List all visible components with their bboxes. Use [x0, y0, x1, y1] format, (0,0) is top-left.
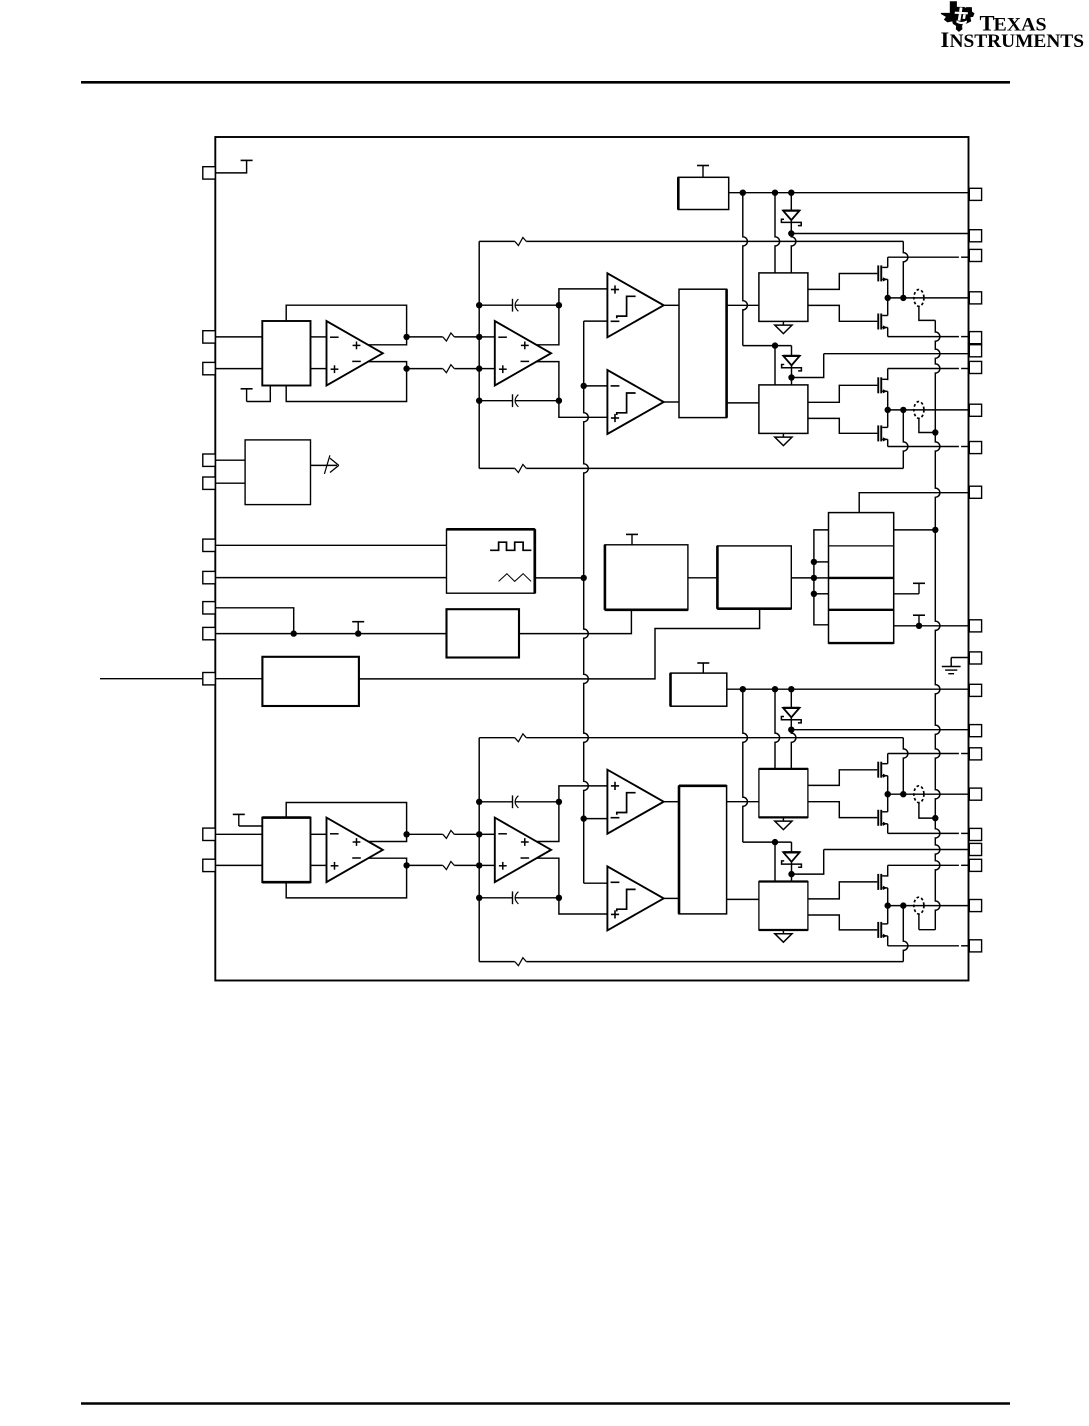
wire gvdd2 branch to zener4 — [743, 841, 792, 843]
pin BSTN1 — [969, 345, 981, 357]
comparator U15 (ch2 upper PWM comp) — [607, 770, 663, 834]
wire gvdd to zener1 — [790, 193, 792, 211]
pin IN1- left — [203, 362, 216, 374]
wire A1 out lower — [368, 362, 407, 369]
node dot stack tap a — [811, 559, 817, 565]
wire OUT2 to bead — [888, 409, 970, 411]
ground symbol (driver U5) — [775, 321, 792, 333]
resistor break R1 (outP) — [443, 333, 455, 341]
pin SE/BTL — [203, 477, 216, 489]
comparator U2 (ch1 upper PWM comp) — [607, 273, 663, 337]
node dot cap bot-left — [476, 398, 482, 404]
transistor Q7 (high-side N2) — [877, 874, 887, 890]
node dot cap top-right — [556, 302, 562, 308]
wire U17 to driver3 — [727, 801, 759, 803]
node dot int2 inP — [476, 831, 482, 837]
pin REF — [203, 602, 216, 614]
pin OUTP2 — [969, 788, 981, 800]
gain block U14 (ch2 input gain) — [262, 818, 310, 883]
wire U18 low gate — [808, 802, 877, 818]
wire gvdd2 drop to bstn branch — [743, 689, 748, 842]
wire gvdd branch to zener2 — [743, 345, 792, 347]
wire drop to driver2 a — [774, 346, 776, 385]
resistor break R6 (outN) — [443, 862, 455, 870]
transistor Q5 (high-side P2) — [877, 762, 887, 778]
zener diode D2 (bstn1) — [782, 356, 802, 379]
pin PGND1 — [969, 332, 981, 344]
wire feedback rail1 drop — [903, 241, 908, 298]
comparator U3 (ch1 lower PWM comp) — [607, 370, 663, 434]
pin VREG (row4 out) — [969, 620, 981, 632]
wire Q2 source to PGND1 — [888, 328, 970, 337]
ramp gen block U9 — [605, 545, 688, 610]
wire bead to OUTN2 pin — [0, 0, 1, 1]
wire PVDD1b rail — [888, 369, 970, 381]
node dot OUT1 b — [900, 295, 906, 301]
pin BSTP2 — [969, 725, 981, 737]
node dot OUT1 a — [885, 295, 891, 301]
bead FB3 (out3 dashed ellipse) — [914, 786, 924, 803]
diagram border — [215, 137, 968, 981]
wire shutdown to pullup — [215, 160, 246, 173]
node dot int2 inN — [476, 862, 482, 868]
pin GVDD2 (right) — [969, 684, 981, 696]
node dot OUT4 b — [900, 902, 906, 908]
node dot v2p5 T tap — [355, 630, 361, 636]
pin PVDD2b — [969, 859, 981, 871]
bead FB4 (out4 dashed ellipse) — [914, 897, 924, 914]
ground symbol (driver U18) — [775, 817, 792, 829]
wire Q2 drain to OUT1 — [887, 298, 889, 316]
bead FB2 (out2 dashed ellipse) — [914, 402, 924, 419]
node dot zener4 top — [772, 839, 778, 845]
wire ramp to U3 minus — [584, 385, 608, 387]
transistor Q4 (low-side N1) — [877, 425, 887, 441]
pullup T symbol (shutdown) — [241, 159, 253, 161]
node dot gvdd2 b — [772, 686, 778, 692]
wire stack tap mid — [814, 577, 829, 579]
gate driver block U6 (ch1 low bridge) — [759, 385, 808, 434]
wire Q8 drain to OUT4 — [887, 906, 889, 924]
bias T symbol (row3) — [913, 583, 925, 594]
wire gvdd2 to zener3 — [790, 689, 792, 707]
node A3 outN dot — [403, 862, 409, 868]
wire A1 outP to integrator — [407, 336, 443, 338]
wire BSTP1 rail — [791, 233, 969, 235]
wire feedback rail2 ch2 — [479, 961, 903, 963]
pin PVDD1 — [969, 249, 981, 261]
pin BSTP1 — [969, 230, 981, 242]
wire rosc to oscillator — [215, 544, 446, 546]
node dot cap2 top-left — [476, 799, 482, 805]
wire gvdd drop to driver1 — [775, 193, 780, 273]
wire PVDD2b rail — [888, 865, 970, 876]
wire R6 to node — [454, 864, 479, 866]
wire Q4 drain to OUT2 — [887, 410, 889, 428]
wire A2 out lower to comp2 — [536, 362, 607, 418]
node dot ramp osc — [581, 575, 587, 581]
wire IN1+ to gain block — [215, 336, 262, 338]
wire Q4 source to PGND1b — [888, 439, 970, 446]
wire mute external lead — [100, 678, 203, 680]
node dot cap2 bot-right — [556, 895, 562, 901]
wire U10 out to stack — [791, 577, 814, 579]
wire A1 outN to integrator — [407, 368, 443, 370]
wire feedback rail2 rise — [903, 410, 908, 469]
capacitor C2 (ch1 lower integrator cap) — [479, 394, 559, 407]
wire IN2- to gain block — [215, 864, 262, 866]
wire OUT4 to bead — [888, 905, 970, 907]
wire A3 feedback top — [286, 803, 406, 835]
wire A4 inN — [479, 864, 495, 866]
wire U8 out to U9 — [519, 610, 631, 634]
logo text TEXAS INSTRUMENTS — [941, 10, 1085, 52]
wire Q1 source to OUT1 — [887, 279, 889, 298]
wire A3 inP — [311, 833, 327, 835]
wire R1 to node — [454, 336, 479, 338]
bias T symbol (ch1 gain block) — [241, 389, 253, 402]
wire Q5 source to OUT3 — [887, 776, 889, 795]
wire drop to driver4 a — [774, 842, 776, 881]
bead FB1 (out1 dashed ellipse) — [914, 290, 924, 307]
bias T symbol (ch2 gain block) — [233, 814, 262, 826]
gate logic block U4 (ch1) — [679, 289, 727, 417]
node dot ref join — [291, 630, 297, 636]
pin BSTN2 — [969, 843, 981, 855]
wire U6 high gate — [808, 385, 877, 402]
bias block U10 — [717, 546, 791, 609]
wire stack row3 out — [894, 593, 919, 595]
wire drop to driver2 b — [791, 378, 793, 385]
wire U18 high gate — [808, 770, 877, 786]
SC detect block U8 — [447, 609, 520, 657]
wire GVDD rail ch2 — [727, 688, 970, 690]
ground symbol (driver U6) — [775, 433, 792, 445]
zener diode D4 (bstn2) — [782, 852, 802, 875]
square wave glyph — [490, 542, 531, 550]
wire Q6 drain to OUT3 — [887, 794, 889, 812]
node dot cap bot-right — [556, 398, 562, 404]
wire ramp to U15 minus — [584, 818, 608, 820]
wire Q8 source to PGND2b — [888, 936, 970, 946]
wire U12 out to U10 bottom — [359, 609, 760, 679]
wire feedback rail1 drop ch2 — [903, 738, 908, 795]
wire stack row1 out to vclamp rail — [894, 529, 936, 531]
wire feedback rail1 ch2 — [479, 737, 903, 739]
wire U15 out — [664, 801, 679, 803]
mute block U12 — [262, 657, 359, 706]
resistor break R7 (fb rail1 ch2) — [515, 734, 527, 742]
node dot OUT2 b — [900, 407, 906, 413]
wire v2p5 rail to SC block — [215, 633, 446, 635]
op-amp A3 (ch2 input diff amp) — [327, 818, 383, 883]
wire volume pin to block — [215, 459, 245, 461]
wire mute pin to mute block — [215, 678, 262, 680]
transistor Q2 (low-side P1) — [877, 314, 887, 330]
wire feedback rail1 ch1 — [479, 240, 903, 242]
oscillator block U7 — [447, 529, 535, 593]
op-amp A1 (ch1 input diff amp) — [327, 321, 383, 386]
wire integrator input bus vertical ch2 — [478, 738, 480, 962]
pin PVDD? IN1+ left — [203, 331, 216, 343]
wire U5 low gate — [808, 305, 877, 321]
wire IN2+ to gain block — [215, 833, 262, 835]
analog ground symbol AGND — [942, 658, 970, 674]
wire drop to driver4 b — [791, 874, 793, 881]
capacitor C1 (ch1 upper integrator cap) — [479, 299, 559, 312]
wire ramp bus vertical — [584, 321, 589, 883]
triangle wave glyph — [499, 574, 531, 582]
wire A4 out upper to comp3 — [536, 786, 607, 842]
node dot gvdd a — [740, 190, 746, 196]
node dot ramp tap U15 — [581, 815, 587, 821]
pin PGND2 — [969, 828, 981, 840]
wire A2 out upper to comp1 — [536, 289, 607, 345]
gate driver block U19 (ch2 low bridge) — [759, 882, 808, 931]
wire feedback rail2 ch1 — [479, 467, 903, 469]
wire U17 to driver4 — [727, 898, 759, 900]
wire IN1- to gain block — [215, 368, 262, 370]
bottom horizontal rule — [81, 1402, 1010, 1405]
wire zener3 down to driver3 — [791, 730, 796, 769]
wire bead1 tap to vclamp rail — [919, 306, 935, 320]
wire osc out to ramp bus — [535, 577, 584, 579]
wire Q3 source to OUT2 — [887, 391, 889, 410]
node dot OUT2 a — [885, 407, 891, 413]
wire bead3 tap to vclamp rail — [919, 803, 935, 819]
wire A4 out lower to comp4 — [536, 858, 607, 914]
pin OUTP1 — [969, 292, 981, 304]
node dot int inP — [476, 334, 482, 340]
wire bead to OUTN1 pin — [0, 0, 1, 1]
comparator U16 (ch2 lower PWM comp) — [607, 866, 663, 930]
pin OUTN1 — [969, 404, 981, 416]
bus arrow head — [330, 458, 339, 472]
pin PGND2b — [969, 940, 981, 952]
wire R5 to node — [454, 833, 479, 835]
node dot bstn2 — [788, 871, 794, 877]
block GVDD reg (ch1) — [678, 177, 728, 209]
resistor break R5 (outP) — [443, 830, 455, 838]
transistor Q6 (low-side P2) — [877, 810, 887, 826]
node dot bstn1 — [788, 374, 794, 380]
pin PGND1b — [969, 442, 981, 454]
node dot row4 T tap — [916, 623, 922, 629]
transistor Q3 (high-side N1) — [877, 377, 887, 393]
op-amp A4 (ch2 integrator) — [495, 818, 551, 883]
node dot stack in — [811, 575, 817, 581]
resistor break R4 (fb rail2) — [515, 465, 527, 473]
wire A1 inN — [311, 368, 327, 370]
pin PVDD2 — [969, 748, 981, 760]
wire stack tap a — [814, 561, 829, 563]
node dot stack tap c — [811, 591, 817, 597]
wire stack tap c — [814, 593, 829, 595]
pin MUTE — [203, 673, 216, 685]
capacitor C3 (ch2 upper integrator cap) — [479, 795, 559, 808]
bias T symbol (gvdd2) — [697, 663, 709, 673]
node dot OUT3 b — [900, 791, 906, 797]
pin COSC — [203, 571, 216, 583]
wire GVDD rail ch1 — [729, 192, 970, 194]
wire integrator input bus vertical ch1 — [478, 241, 480, 468]
pin IN2+ left — [203, 828, 216, 840]
gate driver block U18 (ch2 high bridge) — [759, 769, 808, 818]
wire A3 out lower — [368, 858, 407, 865]
wire BSTN2 rail — [792, 850, 970, 875]
wire gvdd2 drop to driver3 — [775, 689, 780, 769]
bias T symbol (row4) — [913, 615, 925, 626]
resistor break R2 (outN) — [443, 365, 455, 373]
node dot gvdd c — [788, 190, 794, 196]
pin ROSC — [203, 539, 216, 551]
wire zener4 stub — [791, 842, 793, 852]
gain block U1 (ch1 input gain) — [262, 321, 310, 386]
logo TI bug (Texas outline with ti) — [941, 1, 975, 32]
wire BSTP2 rail — [791, 729, 969, 731]
pin V2P5 — [203, 627, 216, 639]
wire gvdd drop to bstn branch — [743, 193, 748, 346]
wire stack row1 top to VCLAMP pin — [859, 493, 969, 513]
wire A3 feedback bottom — [286, 865, 406, 898]
node A1 outN dot — [403, 365, 409, 371]
node dot vclamp row1 — [932, 527, 938, 533]
wire A2 inN — [479, 368, 495, 370]
wire U3 out — [664, 401, 679, 403]
wire U4 to driver1 — [727, 304, 759, 306]
node A3 outP dot — [403, 831, 409, 837]
node dot bst2 — [788, 727, 794, 733]
wire ramp to U2 minus — [584, 320, 608, 322]
wire bead to OUTP1 pin — [0, 0, 1, 1]
wire feedback rail2 rise ch2 — [903, 906, 908, 962]
wire stack tap bus — [814, 530, 829, 625]
resistor break R8 (fb rail2 ch2) — [515, 958, 527, 966]
node dot gvdd b — [772, 190, 778, 196]
wire R2 to node — [454, 368, 479, 370]
gate driver block U5 (ch1 high bridge) — [759, 273, 808, 322]
wire cosc to oscillator — [215, 577, 446, 579]
wire A3 inN — [311, 864, 327, 866]
node A1 outP dot — [403, 334, 409, 340]
wire vclamp rail vertical — [919, 320, 940, 929]
bias T symbol (gvdd1) — [697, 166, 709, 178]
top horizontal rule — [81, 81, 1010, 84]
op-amp A2 (ch1 integrator) — [495, 321, 551, 386]
wire U6 low gate — [808, 418, 877, 433]
pin VCLAMP — [969, 486, 981, 498]
wire A2 inP — [479, 336, 495, 338]
wire U19 low gate — [808, 915, 877, 930]
wire ref pin jog down — [215, 608, 293, 634]
wire A3 outN to integrator — [407, 864, 443, 866]
wire U13 bus out — [311, 464, 338, 466]
node dot OUT4 a — [885, 902, 891, 908]
pullup T symbol (v2p5 rail) — [352, 622, 364, 634]
ground symbol (driver U19) — [775, 930, 792, 942]
wire A3 outP to integrator — [407, 833, 443, 835]
zener diode D1 (bst1) — [781, 211, 801, 234]
regulator stack block U11 (4 rows) — [829, 513, 894, 644]
wire U19 high gate — [808, 882, 877, 899]
wire A4 inP — [479, 833, 495, 835]
node dot OUT3 a — [885, 791, 891, 797]
wire BSTN1 rail — [792, 354, 970, 378]
node dot cap2 bot-left — [476, 895, 482, 901]
wire U9 to U10 — [688, 577, 718, 579]
node dot bst1 — [788, 230, 794, 236]
pin SHUTDOWN (top-left) — [203, 167, 216, 179]
wire Q6 source to PGND2 — [888, 824, 970, 834]
node dot gvdd2 c — [788, 686, 794, 692]
node dot cap2 top-right — [556, 799, 562, 805]
volume block U13 — [245, 440, 310, 505]
node dot int inN — [476, 365, 482, 371]
pin GVDD (right) — [969, 188, 981, 200]
zener diode D3 (bst2) — [781, 708, 801, 731]
wire bead4 tap to vclamp rail — [918, 914, 920, 930]
pin OUTN2 — [969, 900, 981, 912]
wire A3 out upper — [368, 834, 407, 841]
bus slash — [324, 455, 330, 474]
gate logic block U17 (ch2) — [679, 786, 727, 914]
node dot vclamp tap3 — [932, 815, 938, 821]
wire A1 inP — [311, 336, 327, 338]
pin AGND — [969, 652, 981, 664]
wire bead to OUTP2 pin — [0, 0, 1, 1]
wire stack row4 out to VREG pin — [894, 625, 970, 627]
wire U5 high gate — [808, 274, 877, 290]
wire A1 out upper — [368, 337, 407, 345]
wire bias T to block — [247, 386, 271, 402]
resistor break R3 (fb rail1) — [515, 238, 527, 246]
transistor Q8 (low-side N2) — [877, 922, 887, 938]
block GVDD reg (ch2) — [671, 673, 727, 706]
wire ramp to comp4 minus — [584, 882, 608, 884]
wire OUT1 to bead — [888, 297, 970, 299]
node dot vclamp tap2 — [932, 429, 938, 435]
svg-text:I: I — [941, 27, 950, 52]
wire U16 out — [664, 897, 679, 899]
node dot cap top-left — [476, 302, 482, 308]
wire Q1 drain to PVDD1 — [888, 257, 970, 279]
wire Q5 drain to PVDD2 — [888, 754, 970, 764]
wire zener1 down to driver1 — [791, 234, 796, 273]
wire sebtl pin to block — [215, 482, 245, 484]
wire bead2 tap to vclamp rail — [919, 418, 935, 432]
pin VOLUME — [203, 454, 216, 466]
node dot zener2 top — [772, 342, 778, 348]
node dot ramp tap U3 — [581, 383, 587, 389]
wire Q7 source to OUT4 — [887, 888, 889, 906]
wire A1 feedback top — [286, 305, 406, 337]
capacitor C4 (ch2 lower integrator cap) — [479, 891, 559, 904]
node dot gvdd2 a — [740, 686, 746, 692]
svg-text:NSTRUMENTS: NSTRUMENTS — [950, 31, 1085, 52]
bias T symbol (U9) — [626, 534, 638, 544]
wire zener2 stub — [791, 346, 793, 356]
transistor Q1 (high-side P1) — [877, 265, 887, 281]
wire OUT3 to bead — [888, 793, 970, 795]
wire U2 out — [664, 304, 679, 306]
pin IN2- left — [203, 859, 216, 871]
wire U4 to driver2 — [727, 402, 759, 404]
wire A1 feedback bottom — [286, 369, 406, 402]
pin PVDD1b — [969, 361, 981, 373]
